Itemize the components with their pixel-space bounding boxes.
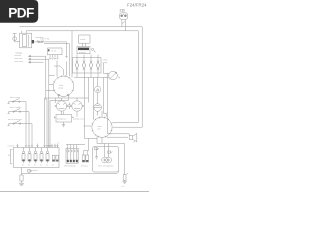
wash pump motor M2 and drain pump motor M3 (55, 98, 84, 111)
buzzer H1 (95, 86, 101, 103)
connector arrow X1 (65, 56, 67, 58)
connector J1 (horn shape) (129, 133, 137, 142)
svg-text:cavo nero: cavo nero (14, 57, 22, 60)
wire S4 to strip (31, 124, 33, 148)
wire S1 output down right of motors (84, 70, 86, 138)
mains plug symbol 230V (120, 13, 128, 31)
wire S7 to timer P1 (63, 70, 65, 76)
fan motor M4 windings (102, 157, 112, 163)
wire harness blue (45, 56, 47, 99)
door switch S2, level switch S3, safety microswitch S4 (8, 96, 33, 125)
wire tap timer P1 pin 3 (49, 84, 53, 86)
ground symbol under motor plate (62, 122, 65, 127)
PDF badge (0, 0, 38, 23)
svg-text:cavo blu: cavo blu (14, 55, 21, 57)
svg-text:res: res (28, 165, 30, 167)
motor M2 M3 label plate (56, 115, 72, 123)
pilot lamp L1 (94, 104, 102, 116)
wire L drop to distribution (71, 31, 73, 78)
terminal strip X2 with heater elements R1-R5 (8, 145, 60, 167)
wire fan M4 feed a (104, 144, 106, 158)
svg-text:progr.: progr. (59, 86, 64, 89)
microswitch S5 with ground (95, 148, 100, 159)
svg-text:PDF: PDF (8, 6, 34, 21)
earth electrode E1 below strip (19, 168, 32, 186)
svg-text:pompa scar.: pompa scar. (74, 119, 85, 121)
wire filter output drop (66, 42, 68, 58)
wire timer P2 pin 9 to J1 (106, 135, 108, 138)
left wire label rows (14, 52, 49, 63)
wire timer P2 pin 7 down (96, 136, 98, 143)
timer P1 (program timer) (53, 75, 73, 96)
svg-text:F24/FR24: F24/FR24 (127, 2, 147, 7)
wire to connector J1 lower (107, 136, 128, 138)
svg-text:termost.: termost. (81, 165, 89, 168)
wire stub terminal 12 (54, 144, 56, 148)
svg-text:uno-due: uno-due (35, 37, 44, 39)
mid right vertical wires (103, 63, 105, 74)
interference filter F1 (13, 31, 34, 48)
wire stub terminal 2 (17, 144, 19, 148)
wire to timer P1 pin b (69, 44, 71, 76)
svg-text:nt 2: nt 2 (121, 185, 124, 188)
wire fan M4 feed b (108, 144, 110, 158)
wire tap timer P1 pin 2 (49, 75, 55, 77)
wire to connector J1 upper (108, 133, 130, 135)
wire run P2 to earth terminal E2 (97, 144, 125, 176)
wire stub terminal 13 (57, 144, 59, 148)
wire rail to strip (44, 98, 46, 148)
wire junction to solenoid bus (85, 138, 98, 140)
page bottom edge line (0, 191, 149, 193)
wire tap timer P1 pin 4 (46, 90, 55, 92)
solenoid valves Y1-Y4 (58, 143, 86, 168)
wire timer P2 pin 8 down (101, 137, 103, 143)
wire stub terminal 11 (51, 144, 53, 148)
svg-text:elettrovalvole: elettrovalvole (64, 165, 77, 168)
wire N top run and right side drop (27, 31, 139, 123)
wire S3 to strip (28, 112, 30, 148)
wire rail to motor M2 (54, 98, 56, 103)
svg-text:tm: tm (52, 164, 54, 167)
svg-text:L1: L1 (58, 143, 60, 145)
wire L top run and right side drop (20, 27, 143, 128)
wire S2 to strip (25, 102, 27, 148)
svg-text:cavo rosso: cavo rosso (14, 60, 23, 63)
svg-text:micro sicurezza: micro sicurezza (8, 119, 23, 121)
motor supply rail wire (45, 97, 89, 99)
wire M3 to label (76, 111, 78, 117)
wire timer P2 left tap (84, 125, 92, 127)
wire stub terminal 1 (37, 144, 39, 148)
inline connector X1 on filter output wire (34, 37, 70, 44)
svg-text:A: A (94, 50, 96, 54)
svg-text:cond.: cond. (80, 39, 86, 41)
motor M1 rating plate box (77, 47, 90, 54)
auxiliary solenoids Y5 Y6 (81, 139, 89, 168)
svg-text:230: 230 (120, 9, 126, 13)
svg-text:cicli: cicli (97, 129, 101, 131)
strip side bracket (11, 149, 13, 164)
wire relay K1 to timer P1 (56, 61, 58, 77)
wire to timer P1 pin a (66, 62, 68, 76)
thermostat TH1 (adjustable) (74, 71, 120, 80)
svg-text:cod 124: cod 124 (8, 146, 15, 148)
wire harness blue lower (46, 100, 47, 148)
svg-text:pompa lav.: pompa lav. (57, 119, 67, 121)
relay K1 terminal box (48, 48, 63, 55)
svg-text:res: res (22, 165, 24, 167)
capacitor C2 between motors (68, 104, 71, 106)
svg-text:timer: timer (59, 84, 64, 87)
svg-text:motore: motore (79, 51, 87, 54)
svg-text:res: res (34, 165, 36, 167)
wire timer P1 pin 5 to rail (58, 96, 60, 99)
earth terminal E2 (121, 173, 128, 188)
switch S7 blade (54, 65, 60, 67)
wire lamp L1 to timer P2 (101, 111, 103, 117)
svg-text:1 2 3 4: 1 2 3 4 (51, 50, 57, 52)
wire harness black (48, 59, 50, 147)
heater / load elements inside strip (22, 148, 59, 167)
drying fan assembly enclosure (93, 147, 119, 173)
wire timer P1 pin 6 to strip (50, 96, 68, 148)
timer P2 (cycle timer) (92, 117, 113, 138)
wire M2 to plate (61, 111, 63, 114)
svg-text:res: res (40, 165, 42, 167)
connector arrows on entering wires (17, 145, 59, 146)
selector switch S1 contact bank (73, 55, 109, 120)
capacitor C1 box (79, 35, 91, 43)
svg-text:vent. asciugatura: vent. asciugatura (98, 165, 114, 168)
svg-text:M: M (8, 155, 10, 157)
svg-text:res: res (46, 165, 48, 167)
svg-text:timer: timer (98, 125, 103, 128)
wire distribution to rail (88, 78, 90, 103)
svg-text:selett.: selett. (103, 59, 109, 62)
earth bus wire (22, 171, 119, 174)
svg-text:h: h (119, 76, 121, 80)
microswitch S6 (108, 151, 113, 153)
